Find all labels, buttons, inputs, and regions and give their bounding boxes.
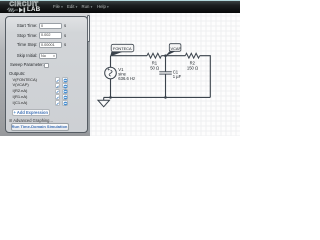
svg-text:636.6 Hz: 636.6 Hz xyxy=(118,76,135,81)
wire: V1 positive terminal up to FONTECA node xyxy=(110,56,112,67)
junction at bottom rail below C1 xyxy=(164,96,167,99)
wire: R1 right terminal to R2 left terminal through VCAP node xyxy=(161,55,185,57)
menu File xyxy=(53,4,63,9)
Outputs label xyxy=(9,72,25,77)
wire: R2 right terminal down right side to bottom rail xyxy=(200,56,211,98)
junction at bottom rail below V1 xyxy=(109,96,112,99)
svg-text:150 Ω: 150 Ω xyxy=(187,65,198,70)
wire: bottom rail xyxy=(104,96,211,98)
wire: V1 negative terminal down to bottom rail xyxy=(110,79,112,98)
node flag VCAP xyxy=(165,44,181,57)
Sweep Parameter row xyxy=(10,63,44,68)
menu Help xyxy=(97,4,109,9)
settings dialog xyxy=(5,16,88,134)
junction at VCAP node (top of C1) xyxy=(164,54,167,57)
capacitor C1 xyxy=(159,72,172,74)
voltage source V1 xyxy=(105,67,117,79)
svg-text:VCAP: VCAP xyxy=(171,46,182,51)
Run simulation button xyxy=(11,123,69,131)
Start Time row xyxy=(8,24,38,29)
dialog scrollbar xyxy=(88,16,90,134)
Advanced Graphing link xyxy=(9,118,53,123)
svg-text:FONTECA: FONTECA xyxy=(113,46,132,51)
top menu bar xyxy=(0,0,240,13)
resistor R1 xyxy=(147,53,161,58)
wire: top rail, FONTECA node to R1 left terminal xyxy=(111,55,148,57)
Add Expression button xyxy=(12,109,50,116)
ground xyxy=(98,97,110,106)
output rows xyxy=(13,78,37,83)
svg-text:50 Ω: 50 Ω xyxy=(150,65,159,70)
wire: C1 bottom plate down to bottom rail xyxy=(165,75,167,98)
Skip Initial row xyxy=(8,54,38,59)
Stop Time row xyxy=(8,34,38,39)
Time Step row xyxy=(8,43,38,48)
wire: VCAP node down to C1 top plate xyxy=(165,56,167,72)
node flag FONTECA xyxy=(110,44,134,56)
CircuitLab logo xyxy=(10,1,44,8)
menu Edit xyxy=(67,4,77,9)
resistor R2 xyxy=(185,53,199,58)
svg-text:1 µF: 1 µF xyxy=(173,74,182,79)
schematic canvas with grid xyxy=(90,13,240,136)
left sidebar background xyxy=(0,13,90,136)
menu Run xyxy=(82,4,93,9)
